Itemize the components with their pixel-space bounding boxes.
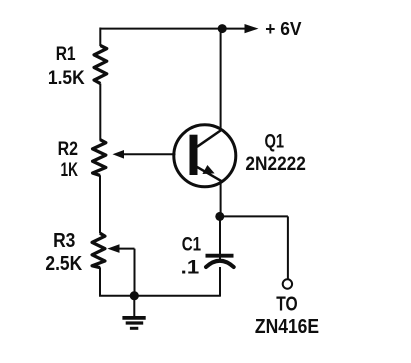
wire node to output bbox=[220, 215, 288, 217]
svg-text:R1: R1 bbox=[56, 43, 76, 65]
wire left rail lower bbox=[99, 267, 101, 295]
wire left rail R2-R3 bbox=[99, 175, 101, 233]
svg-text:R2: R2 bbox=[58, 138, 79, 160]
svg-text:1.5K: 1.5K bbox=[48, 67, 85, 89]
output terminal circle bbox=[283, 279, 292, 288]
capacitor C1 top plate bbox=[206, 254, 234, 258]
transistor Q1 emitter arrowhead bbox=[202, 165, 214, 174]
transistor Q1 emitter stroke bbox=[197, 167, 222, 181]
transistor Q1 collector stroke bbox=[197, 130, 221, 147]
wire emitter vertical bbox=[220, 181, 222, 218]
R2 wiper arrow bbox=[113, 150, 125, 159]
wire ground lead bbox=[133, 296, 135, 317]
transistor Q1 circle bbox=[174, 125, 236, 187]
+6V arrowhead bbox=[245, 24, 259, 33]
transistor Q1 base bar bbox=[190, 135, 198, 175]
resistor R1 bbox=[94, 46, 107, 84]
resistor R3 (pot) bbox=[92, 233, 105, 267]
wire output drop bbox=[287, 216, 289, 279]
svg-text:C1: C1 bbox=[182, 234, 202, 255]
wire top rail bbox=[100, 28, 222, 30]
capacitor C1 curved plate bbox=[206, 261, 234, 267]
wire R3 wiper bbox=[118, 249, 135, 296]
resistor R2 (pot) bbox=[93, 140, 106, 176]
svg-text:2.5K: 2.5K bbox=[45, 253, 82, 275]
wire bottom rail bbox=[99, 295, 221, 297]
wire C1 bottom lead bbox=[219, 267, 221, 297]
svg-text:Q1: Q1 bbox=[265, 132, 285, 153]
ground symbol bars bbox=[122, 316, 145, 320]
svg-text:2N2222: 2N2222 bbox=[245, 153, 306, 175]
svg-text:TO: TO bbox=[276, 293, 297, 315]
wire left rail R1-R2 bbox=[99, 84, 101, 141]
junction dot ground node bbox=[130, 291, 139, 300]
svg-text:.1: .1 bbox=[181, 256, 200, 278]
R3 wiper arrow bbox=[107, 244, 119, 253]
wire R2 wiper to base bbox=[121, 153, 176, 155]
svg-text:ZN416E: ZN416E bbox=[255, 316, 319, 338]
wire collector vertical bbox=[220, 29, 222, 131]
svg-text:1K: 1K bbox=[61, 160, 79, 181]
svg-text:R3: R3 bbox=[53, 230, 75, 252]
wire left rail upper bbox=[99, 28, 101, 47]
junction dot emitter node bbox=[215, 212, 224, 221]
wire +6V arrow shaft bbox=[222, 28, 247, 30]
svg-text:+ 6V: + 6V bbox=[265, 18, 302, 39]
junction dot top (+6V node) bbox=[218, 24, 227, 33]
wire C1 top lead bbox=[219, 216, 221, 259]
